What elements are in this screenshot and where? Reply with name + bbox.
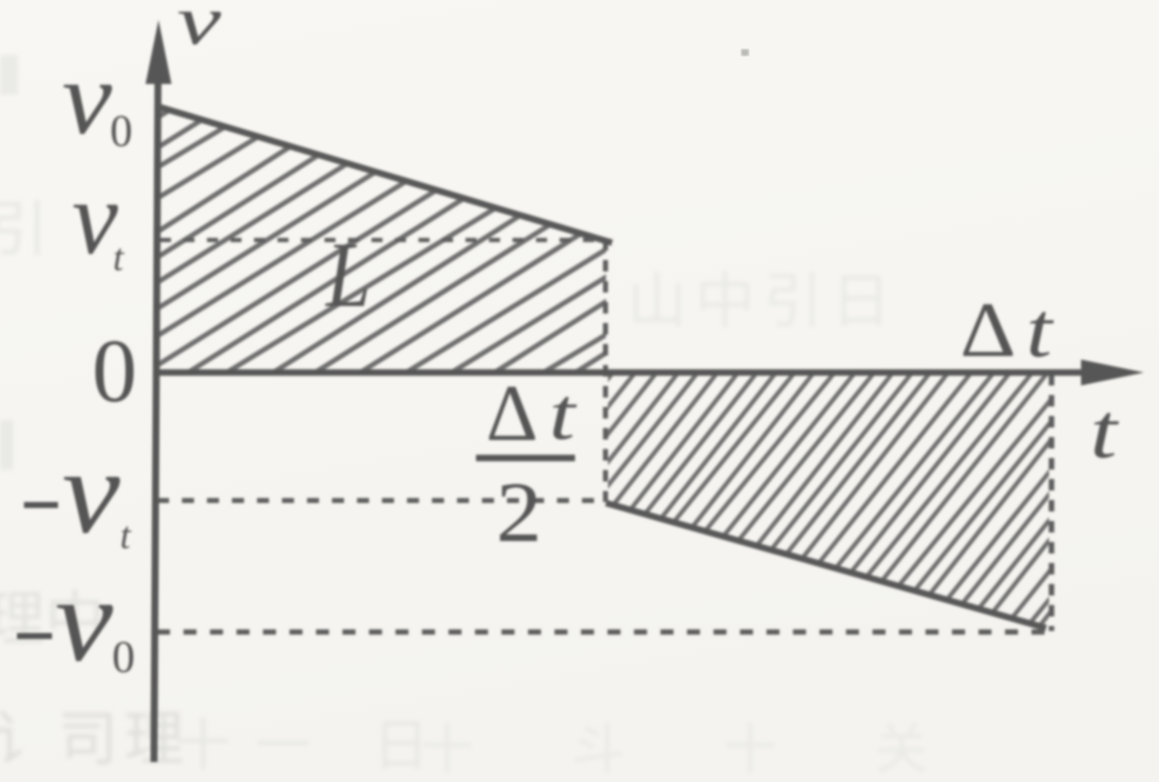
svg-text:2: 2 — [496, 464, 542, 560]
svg-text:v: v — [62, 39, 112, 156]
svg-text:Δ: Δ — [486, 370, 538, 458]
svg-text:十一 日: 十一 日 — [175, 716, 453, 778]
svg-text:t: t — [120, 515, 132, 557]
svg-text:v: v — [177, 0, 222, 60]
svg-text:t: t — [113, 237, 125, 279]
svg-text:十 斗 十 关: 十 斗 十 关 — [420, 720, 971, 780]
svg-text:引: 引 — [0, 197, 48, 263]
svg-text:t: t — [1090, 387, 1120, 474]
svg-text:山中引日: 山中引日 — [627, 269, 899, 335]
svg-text:L: L — [324, 224, 371, 327]
svg-text:v: v — [72, 159, 118, 276]
svg-text:t: t — [549, 374, 578, 456]
svg-text:v: v — [62, 425, 121, 558]
svg-text:讠司理: 讠司理 — [0, 707, 190, 773]
svg-text:Δ: Δ — [960, 286, 1016, 373]
svg-text:v: v — [55, 553, 114, 686]
svg-text:0: 0 — [110, 106, 133, 156]
svg-text:0: 0 — [92, 322, 137, 421]
svg-text:0: 0 — [112, 631, 135, 682]
svg-text:t: t — [1026, 286, 1055, 373]
